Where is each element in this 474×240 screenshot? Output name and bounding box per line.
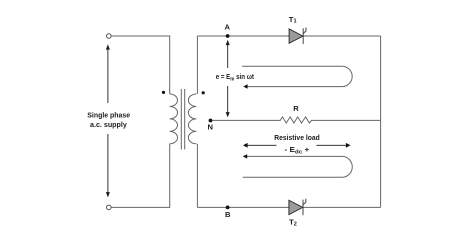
svg-text:Resistive load: Resistive load [274, 133, 320, 142]
wire top-left to primary [111, 36, 170, 94]
voltage measurement arrow e (A to N) [226, 40, 230, 118]
terminal bottom-left [107, 205, 112, 210]
node A [226, 34, 230, 38]
wire bottom rail [197, 206, 380, 208]
terminal top-left [107, 34, 112, 39]
secondary top lead [196, 36, 198, 94]
svg-text:N: N [208, 123, 213, 132]
transformer primary winding [170, 94, 178, 144]
polarity dot secondary [202, 91, 205, 94]
svg-text:R: R [293, 104, 299, 113]
transformer secondary winding [188, 94, 196, 144]
svg-text:a.c. supply: a.c. supply [90, 120, 128, 129]
node N [209, 119, 213, 123]
supply voltage arrow (double-headed) [106, 44, 110, 197]
secondary bottom lead [196, 144, 198, 208]
wire right rail [380, 36, 382, 207]
svg-text:A: A [225, 23, 231, 32]
resistor R [212, 117, 380, 123]
svg-text:Single phase: Single phase [87, 110, 130, 119]
svg-text:B: B [225, 210, 231, 219]
thyristor T1 [289, 15, 306, 44]
node B [226, 206, 230, 210]
measurement arrow Edc (double-headed) [243, 143, 351, 148]
wire top rail [197, 35, 380, 37]
wire bottom-left to primary [111, 144, 170, 208]
thyristor T2 [289, 199, 306, 228]
polarity dot primary [162, 91, 165, 94]
transformer core [181, 89, 184, 150]
current loop top (hairpin with left arrow) [242, 66, 352, 86]
svg-text:e = Em sin ωt: e = Em sin ωt [216, 72, 255, 82]
current loop bottom (hairpin with left arrow on top line) [243, 156, 353, 177]
